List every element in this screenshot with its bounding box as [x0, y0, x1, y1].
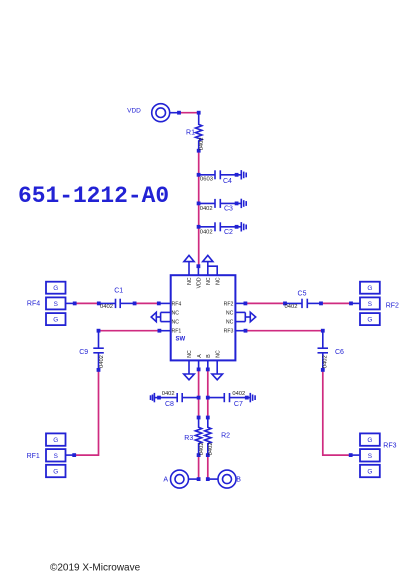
svg-text:C3: C3 [224, 205, 233, 212]
svg-text:NC: NC [187, 277, 193, 285]
svg-text:RF1: RF1 [172, 329, 182, 335]
svg-text:C7: C7 [234, 401, 243, 408]
svg-text:S: S [54, 301, 58, 308]
svg-text:NC: NC [215, 277, 221, 285]
svg-text:0402: 0402 [232, 391, 245, 397]
svg-text:G: G [367, 437, 372, 444]
svg-text:0402: 0402 [199, 442, 205, 455]
svg-text:NC: NC [215, 350, 221, 358]
svg-text:RF3: RF3 [383, 443, 396, 450]
svg-text:NC: NC [206, 277, 212, 285]
svg-text:VDD: VDD [127, 108, 141, 115]
svg-text:VDD: VDD [197, 277, 203, 288]
svg-text:0603: 0603 [200, 177, 213, 183]
svg-text:C9: C9 [79, 349, 88, 356]
svg-text:G: G [53, 469, 58, 476]
svg-text:NC: NC [187, 350, 193, 358]
svg-text:0402: 0402 [199, 137, 205, 150]
svg-text:G: G [53, 285, 58, 292]
svg-text:G: G [367, 469, 372, 476]
svg-text:RF1: RF1 [27, 453, 40, 460]
svg-text:C5: C5 [298, 291, 307, 298]
svg-text:G: G [367, 317, 372, 324]
svg-text:S: S [368, 453, 372, 460]
svg-text:S: S [368, 301, 372, 308]
svg-text:©2019 X-Microwave: ©2019 X-Microwave [50, 563, 141, 574]
svg-text:R1: R1 [186, 130, 195, 137]
svg-text:0402: 0402 [200, 206, 213, 212]
svg-text:RF4: RF4 [172, 301, 182, 307]
svg-text:G: G [53, 437, 58, 444]
svg-text:RF2: RF2 [386, 302, 399, 309]
svg-text:0402: 0402 [100, 304, 113, 310]
svg-text:A: A [163, 477, 168, 484]
svg-text:0402: 0402 [99, 355, 105, 368]
svg-text:NC: NC [226, 310, 234, 316]
svg-text:G: G [53, 317, 58, 324]
svg-text:0402: 0402 [285, 304, 298, 310]
svg-text:C1: C1 [114, 288, 123, 295]
svg-text:651-1212-A0: 651-1212-A0 [18, 183, 169, 209]
svg-text:R2: R2 [221, 432, 230, 439]
svg-text:RF4: RF4 [27, 301, 40, 308]
svg-text:NC: NC [226, 320, 234, 326]
svg-text:G: G [367, 285, 372, 292]
svg-text:C8: C8 [165, 401, 174, 408]
svg-text:B: B [206, 354, 212, 358]
svg-text:0402: 0402 [200, 229, 213, 235]
svg-text:NC: NC [172, 320, 180, 326]
svg-text:SW: SW [176, 337, 186, 343]
svg-text:0402: 0402 [208, 442, 214, 455]
svg-text:RF2: RF2 [224, 301, 234, 307]
svg-text:C4: C4 [223, 178, 232, 185]
svg-text:C2: C2 [224, 229, 233, 236]
svg-text:A: A [197, 354, 203, 358]
svg-text:0402: 0402 [162, 391, 175, 397]
svg-text:RF3: RF3 [224, 329, 234, 335]
svg-text:C6: C6 [335, 349, 344, 356]
svg-text:R3: R3 [184, 435, 193, 442]
svg-text:B: B [236, 477, 241, 484]
svg-text:0402: 0402 [322, 355, 328, 368]
svg-text:NC: NC [172, 310, 180, 316]
svg-text:S: S [54, 453, 58, 460]
